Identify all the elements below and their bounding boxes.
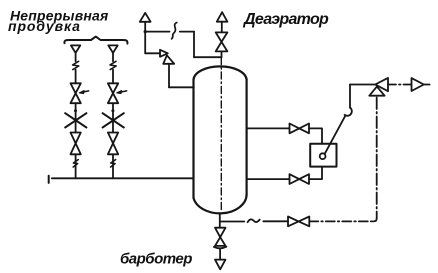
svg-text:Деаэратор: Деаэратор <box>242 11 329 28</box>
svg-text:барботер: барботер <box>120 251 192 268</box>
svg-text:продувка: продувка <box>8 18 81 34</box>
